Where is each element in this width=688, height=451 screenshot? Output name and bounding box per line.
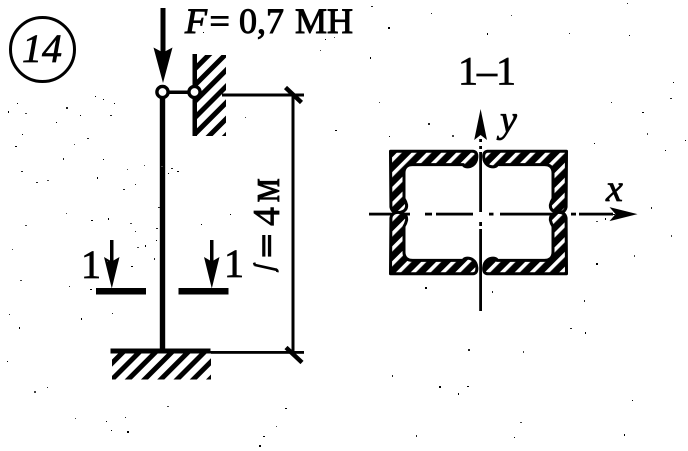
svg-text:1: 1 <box>81 242 101 287</box>
svg-text:0,7: 0,7 <box>239 1 284 41</box>
svg-text:1: 1 <box>224 241 244 286</box>
svg-text:y: y <box>496 99 517 141</box>
svg-text:1–1: 1–1 <box>458 49 515 94</box>
svg-text:14: 14 <box>22 26 62 71</box>
svg-text:МН: МН <box>295 1 353 41</box>
svg-text:F: F <box>184 1 208 41</box>
svg-text:4: 4 <box>246 207 288 226</box>
svg-text:x: x <box>605 168 623 210</box>
svg-text:м: м <box>239 178 290 202</box>
svg-text:=: = <box>210 1 230 41</box>
